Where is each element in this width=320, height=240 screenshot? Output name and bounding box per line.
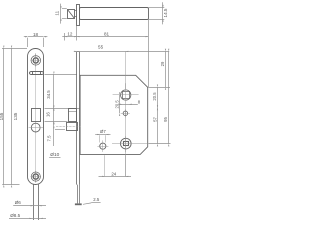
hole O7 [100, 143, 106, 149]
lower follower (WC spindle) [121, 138, 132, 149]
svg-text:16: 16 [46, 112, 51, 117]
guide pin (side view) [77, 185, 79, 204]
dim O6 [13, 205, 46, 207]
top screw hole [31, 56, 41, 66]
ext line latch bottom [45, 121, 68, 123]
svg-text:57: 57 [152, 117, 157, 122]
dim O8.5 [9, 218, 46, 220]
svg-text:34.5: 34.5 [46, 90, 51, 99]
dim 20.5 (follower to fixing hole) [119, 95, 121, 113]
svg-text:20.5: 20.5 [152, 92, 157, 101]
svg-text:11: 11 [54, 10, 59, 15]
dim 135 (faceplate length) [2, 48, 27, 50]
svg-text:2.5: 2.5 [93, 197, 100, 202]
svg-text:24: 24 [111, 171, 116, 176]
top view: faceplate edge-on [77, 5, 80, 26]
dim 155 (overall length) [3, 48, 5, 185]
svg-text:20.5: 20.5 [115, 100, 120, 109]
svg-text:Ø8.5: Ø8.5 [10, 213, 20, 218]
top view: lock case [80, 8, 149, 20]
dim 34.5 [53, 74, 55, 108]
ext chamfer end [148, 87, 170, 89]
guide pin below faceplate [33, 185, 35, 221]
dim 29 [165, 51, 167, 87]
dim O7 [95, 134, 110, 136]
svg-text:7.5: 7.5 [47, 135, 52, 142]
dim 55 (backset) [74, 51, 169, 53]
svg-text:14.5: 14.5 [163, 8, 168, 17]
faceplate (front view, stadium shape) [28, 49, 44, 185]
svg-text:12: 12 [67, 31, 73, 36]
square follower (handle hub) [121, 90, 131, 100]
svg-text:55: 55 [98, 44, 104, 49]
top view: latch bolt (beveled) [68, 10, 75, 19]
svg-text:Ø6: Ø6 [15, 200, 22, 205]
faceplate edge-on (side view) [76, 52, 78, 185]
ext line latch top [45, 108, 81, 110]
svg-text:Ø10: Ø10 [50, 152, 59, 158]
deadbolt centreline [56, 126, 81, 128]
latch cutout [32, 109, 41, 122]
dim 7.5 [53, 122, 55, 146]
vertical centreline through follower/holes [125, 51, 127, 176]
svg-text:18: 18 [33, 32, 39, 37]
dim 11 (latch height, top view) [60, 4, 62, 24]
fixing screw hole [123, 111, 128, 116]
top slot (stadium cutout) [30, 72, 44, 75]
dim 57 [157, 108, 159, 144]
faceplate centerline [35, 53, 37, 183]
dim 20.5 right [157, 87, 159, 108]
svg-text:81: 81 [104, 31, 110, 36]
dim 14.5 (case thickness) [149, 7, 165, 9]
svg-text:Ø7: Ø7 [100, 129, 106, 134]
ext line slot centre [45, 74, 78, 76]
deadbolt (side view) [67, 123, 78, 131]
dim line 12 / 81 (top view) [62, 36, 148, 38]
lock case outline [80, 75, 148, 154]
dim 24 [104, 155, 106, 176]
ext follower centreline right [148, 143, 170, 145]
svg-text:29: 29 [160, 61, 165, 66]
deadbolt hole O10 [31, 123, 40, 132]
pin bottom flange [75, 203, 82, 205]
dim 8 (square) [119, 104, 138, 106]
dim 95 [168, 51, 170, 143]
dim 18 (faceplate width) [28, 36, 44, 38]
svg-text:155: 155 [0, 112, 4, 120]
svg-text:95: 95 [163, 117, 168, 122]
bottom screw hole [31, 172, 40, 181]
latch bolt (side view) [69, 109, 77, 122]
svg-text:135: 135 [13, 112, 18, 120]
dim 16 [53, 108, 55, 122]
